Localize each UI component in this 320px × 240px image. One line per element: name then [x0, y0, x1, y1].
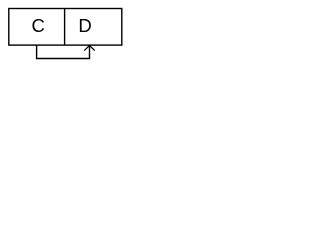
divider wire	[64, 9, 66, 46]
svg-text:D: D	[78, 15, 91, 36]
wire feedback down	[37, 45, 90, 58]
svg-text:C: C	[32, 15, 45, 36]
arrowhead	[84, 45, 94, 50]
block box C|D	[9, 9, 122, 46]
